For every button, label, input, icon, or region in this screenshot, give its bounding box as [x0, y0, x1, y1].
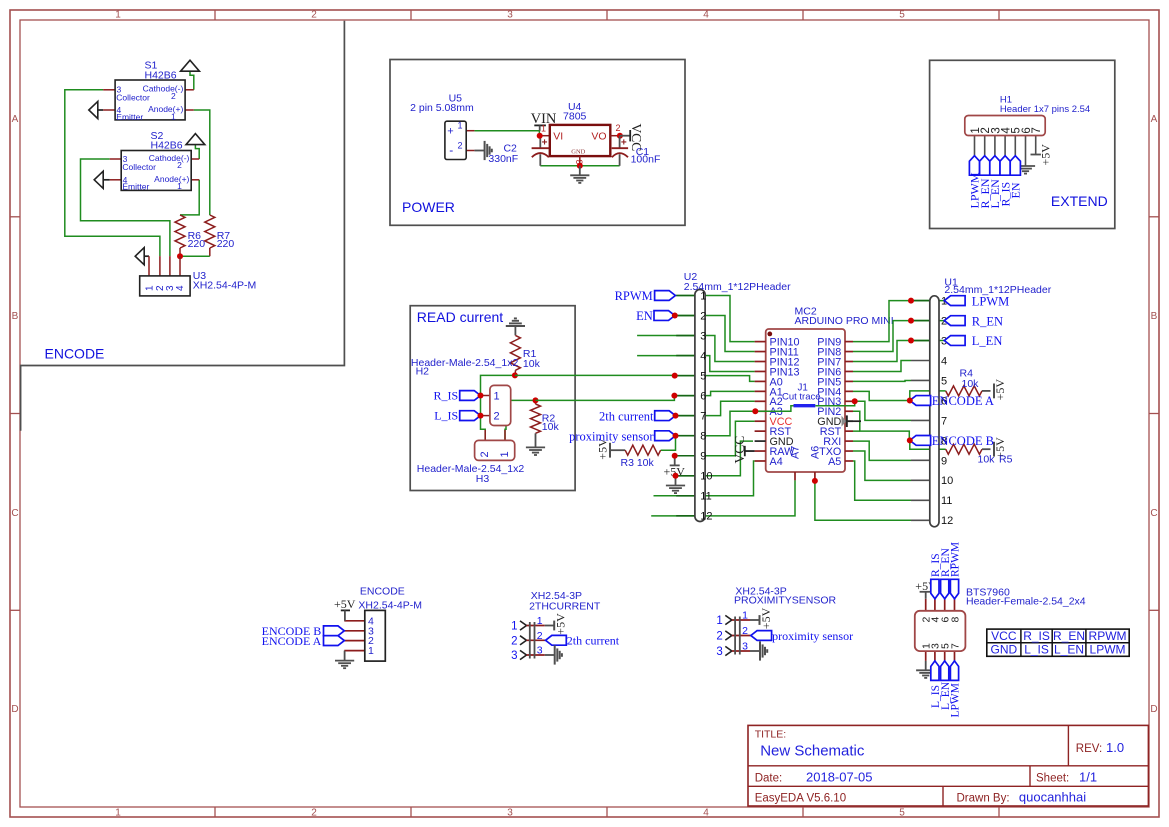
wire S1 cathode to VCC arrow	[190, 71, 194, 90]
VCC arrow above S2	[186, 134, 205, 145]
svg-text:8: 8	[949, 617, 961, 623]
svg-text:H3: H3	[476, 473, 490, 485]
svg-text:+5V: +5V	[1039, 144, 1053, 166]
pin S1.2	[185, 89, 194, 91]
ground above R1	[506, 325, 525, 327]
MC2 right pins	[845, 341, 853, 343]
svg-text:R_EN: R_EN	[972, 314, 1003, 328]
emitter arrow S2	[103, 179, 110, 181]
EXTEND section box	[930, 60, 1115, 228]
svg-text:B: B	[12, 311, 19, 322]
svg-text:RPWM: RPWM	[950, 542, 962, 577]
svg-text:B: B	[1151, 311, 1158, 322]
junction A3	[752, 408, 758, 414]
R3 resistor 10k	[610, 449, 625, 451]
svg-text:proximity sensor: proximity sensor	[772, 629, 853, 643]
svg-text:LPWM: LPWM	[1090, 643, 1126, 657]
svg-text:1: 1	[171, 111, 176, 121]
svg-text:ARDUINO PRO MINI: ARDUINO PRO MINI	[795, 315, 894, 327]
junction VIN node dot	[537, 133, 543, 139]
svg-text:6: 6	[700, 391, 706, 403]
svg-text:Drawn By:: Drawn By:	[957, 792, 1010, 804]
VCC net label at RAW	[745, 450, 755, 452]
svg-text:POWER: POWER	[402, 199, 455, 215]
+5V at ENCODE pin4	[341, 609, 350, 611]
svg-text:9: 9	[700, 451, 706, 463]
junction A6	[812, 478, 818, 484]
svg-text:1: 1	[742, 610, 748, 622]
junction R_IS	[478, 393, 484, 399]
H1 pin wires	[974, 136, 976, 156]
svg-text:L_EN: L_EN	[972, 334, 1003, 348]
svg-text:ENCODE B: ENCODE B	[932, 434, 994, 448]
+5V at H1.7	[1031, 154, 1041, 156]
svg-text:A: A	[1151, 114, 1158, 125]
net flag RPWM top	[950, 579, 958, 599]
svg-text:D: D	[1150, 704, 1157, 715]
svg-text:2 pin 5.08mm: 2 pin 5.08mm	[410, 102, 474, 114]
ENCODE section box	[21, 21, 345, 431]
svg-text:A4: A4	[770, 456, 783, 468]
wire S1 collector to U3 pin2	[65, 90, 160, 256]
svg-text:XH2.54-4P-M: XH2.54-4P-M	[193, 280, 257, 292]
svg-text:GND: GND	[571, 148, 585, 155]
svg-text:New Schematic: New Schematic	[760, 743, 865, 760]
svg-text:Sheet:: Sheet:	[1036, 772, 1069, 784]
svg-text:12: 12	[700, 511, 712, 523]
svg-text:+5V: +5V	[993, 379, 1007, 401]
READ current section box	[410, 306, 575, 491]
wire R2 top	[535, 400, 537, 404]
header H2	[490, 385, 511, 425]
svg-text:5: 5	[899, 808, 905, 819]
ground at U5.2	[474, 150, 484, 152]
header U2 2.54mm 1x12	[676, 295, 695, 297]
svg-text:C: C	[11, 508, 18, 519]
junction R1 node	[512, 372, 518, 378]
svg-text:EXTEND: EXTEND	[1051, 193, 1108, 209]
wire S2 anode to R6	[180, 180, 199, 215]
svg-text:2: 2	[458, 141, 463, 151]
svg-text:Anode(+): Anode(+)	[154, 174, 189, 184]
svg-text:2: 2	[494, 411, 500, 423]
wire U5.1 to VIN node	[474, 131, 539, 136]
net flag L_EN	[944, 336, 965, 346]
pin U3.3	[169, 256, 171, 276]
pin H2.1	[481, 395, 490, 397]
svg-text:7: 7	[1031, 127, 1043, 133]
svg-text:12: 12	[941, 515, 953, 527]
title block	[748, 725, 1148, 806]
svg-text:2: 2	[716, 631, 722, 643]
net flag ENCODE A bottom	[324, 636, 345, 646]
svg-text:ENCODE A: ENCODE A	[932, 394, 994, 408]
svg-text:7: 7	[941, 415, 947, 427]
+5V at BTS pin2	[920, 591, 933, 593]
svg-text:1: 1	[494, 390, 500, 402]
svg-text:2: 2	[177, 160, 182, 170]
junction R2 node	[533, 397, 539, 403]
wire R7 bottom to node	[209, 248, 211, 256]
svg-text:2THCURRENT: 2THCURRENT	[529, 600, 601, 612]
opto S2 H42B6	[121, 151, 191, 191]
pin S2.3	[110, 158, 122, 160]
svg-text:VCC: VCC	[991, 629, 1017, 643]
svg-text:7805: 7805	[563, 111, 587, 123]
wire R1 to junction	[514, 370, 516, 375]
svg-text:R5: R5	[999, 454, 1013, 466]
pin S2.2	[191, 158, 199, 160]
pin S2.4	[110, 179, 122, 181]
svg-text:L_IS: L_IS	[1024, 643, 1049, 657]
net flag R_EN top	[941, 579, 949, 599]
svg-text:+: +	[542, 138, 548, 149]
net flag ENCODE B bottom	[324, 626, 345, 636]
gnd arrow U3.1	[135, 248, 144, 265]
svg-text:220: 220	[188, 238, 206, 250]
svg-text:1: 1	[511, 621, 517, 633]
svg-text:11: 11	[700, 491, 711, 503]
svg-text:4: 4	[700, 350, 706, 362]
pin U4.VI	[540, 135, 550, 137]
svg-text:8: 8	[700, 431, 706, 443]
svg-text:7: 7	[949, 643, 961, 649]
svg-text:2: 2	[616, 123, 621, 133]
svg-text:10k: 10k	[978, 454, 996, 466]
svg-text:2th current: 2th current	[567, 634, 620, 648]
svg-text:3: 3	[716, 646, 722, 658]
svg-text:1: 1	[537, 615, 543, 627]
svg-text:10: 10	[700, 471, 712, 483]
net flag EN	[1010, 156, 1020, 176]
MC2 left pins	[755, 341, 766, 343]
svg-text:R_EN: R_EN	[1053, 629, 1085, 643]
net flag LPWM bottom	[950, 661, 958, 681]
+5V below U2 pin9	[674, 456, 676, 466]
svg-text:2: 2	[700, 310, 706, 322]
svg-text:VCC: VCC	[629, 124, 644, 152]
ground below U4	[579, 166, 581, 176]
svg-text:EasyEDA V5.6.10: EasyEDA V5.6.10	[755, 793, 846, 805]
svg-text:Header 1x7 pins 2.54: Header 1x7 pins 2.54	[1000, 104, 1090, 115]
svg-text:2.54mm_1*12PHeader: 2.54mm_1*12PHeader	[684, 281, 791, 293]
svg-text:2: 2	[311, 10, 317, 21]
net flag 2th current	[655, 411, 676, 421]
net flag L_EN bottom	[941, 661, 949, 681]
ground below R2	[535, 433, 537, 447]
svg-text:3: 3	[700, 330, 706, 342]
svg-text:1.0: 1.0	[1106, 740, 1124, 755]
svg-text:+: +	[447, 126, 453, 138]
+5V at R3	[609, 443, 611, 458]
net flag ENCODE B	[910, 435, 931, 445]
svg-text:11: 11	[941, 495, 952, 507]
svg-text:1: 1	[499, 451, 511, 457]
wire gnd bus C2-C1	[540, 165, 619, 167]
svg-text:TITLE:: TITLE:	[755, 729, 787, 741]
svg-text:ENCODE A: ENCODE A	[262, 634, 322, 648]
junction R6/R7/U3.4	[177, 253, 183, 259]
svg-text:H42B6: H42B6	[151, 140, 183, 152]
svg-text:4: 4	[941, 355, 947, 367]
svg-text:A6: A6	[810, 446, 822, 459]
capacitor C1	[619, 136, 621, 149]
svg-text:5: 5	[700, 371, 706, 383]
pin H3.2	[484, 430, 486, 441]
svg-text:D: D	[11, 704, 18, 715]
svg-text:RPWM: RPWM	[615, 289, 653, 303]
svg-text:L_EN: L_EN	[1054, 643, 1084, 657]
svg-text:10: 10	[941, 475, 953, 487]
svg-text:3: 3	[511, 650, 517, 662]
svg-text:READ current: READ current	[417, 309, 503, 325]
svg-text:Collector: Collector	[116, 93, 150, 103]
svg-text:GND: GND	[991, 643, 1018, 657]
svg-text:3: 3	[507, 808, 513, 819]
net flag EN	[654, 311, 675, 321]
pin H3.1	[504, 430, 506, 441]
header U1 2.54mm 1x12	[911, 300, 930, 302]
GND flag right of MC2	[842, 416, 847, 427]
svg-text:-: -	[449, 143, 453, 157]
wire junction to H2.1 (R_IS)	[481, 375, 515, 395]
net flag R_EN	[944, 316, 965, 326]
svg-text:2: 2	[537, 630, 543, 642]
cut trace wire J1	[755, 406, 793, 412]
svg-text:4: 4	[703, 10, 709, 21]
wire R_IS to L_IS	[480, 396, 482, 416]
wire L_IS to H3.2	[481, 416, 486, 441]
resistor R1	[510, 335, 520, 370]
connector BTS7960 Header-Female-2.54_2x4	[925, 599, 927, 611]
svg-text:ENCODE: ENCODE	[360, 585, 405, 597]
pin H2.2	[481, 415, 490, 417]
svg-text:Emitter: Emitter	[122, 182, 149, 192]
net flag ENCODE A	[910, 396, 931, 406]
svg-text:Collector: Collector	[122, 162, 156, 172]
svg-text:VCC: VCC	[732, 436, 747, 464]
svg-text:10k: 10k	[523, 358, 541, 370]
wires MC2 right to U1	[853, 301, 944, 342]
header H1	[965, 116, 1045, 136]
svg-text:H42B6: H42B6	[145, 69, 177, 81]
svg-text:10k: 10k	[962, 378, 980, 390]
pin U3.2	[159, 256, 161, 276]
pin U5.2	[466, 150, 474, 152]
MC2 bottom pins A7 A6	[794, 472, 796, 480]
svg-text:+: +	[621, 138, 627, 149]
R5 pullup ENCODE B	[910, 440, 946, 449]
svg-text:R_IS: R_IS	[1023, 629, 1050, 643]
svg-text:A7: A7	[790, 446, 802, 459]
ground at H1.6	[1016, 165, 1035, 167]
pin U4.GND	[579, 156, 581, 166]
svg-text:1: 1	[115, 808, 121, 819]
net flag R_IS	[460, 391, 481, 401]
svg-text:R3 10k: R3 10k	[621, 457, 655, 469]
svg-text:9: 9	[941, 455, 947, 467]
pin U4.VO	[610, 135, 620, 137]
pin U5.1	[466, 130, 474, 132]
svg-text:220: 220	[217, 238, 235, 250]
svg-text:3: 3	[742, 641, 748, 653]
pin U3.4	[179, 256, 181, 276]
svg-text:7: 7	[700, 411, 706, 423]
R4 pullup ENCODE A	[910, 391, 946, 401]
svg-text:2th current: 2th current	[599, 409, 654, 423]
svg-text:+5V: +5V	[334, 597, 356, 611]
svg-text:RPWM: RPWM	[1089, 629, 1127, 643]
net flag L_EN	[990, 156, 1000, 176]
svg-text:XH2.54-4P-M: XH2.54-4P-M	[358, 599, 422, 611]
svg-text:1: 1	[115, 10, 121, 21]
ENCODE 4P connector	[344, 620, 365, 622]
ground below U2 pin10	[675, 476, 677, 486]
net label VCC	[620, 135, 630, 137]
svg-text:Cut trace: Cut trace	[782, 392, 821, 403]
pin S2.1	[191, 179, 199, 181]
svg-text:R_IS: R_IS	[434, 389, 459, 403]
svg-text:H2: H2	[416, 366, 430, 378]
svg-text:4: 4	[703, 808, 709, 819]
svg-text:3: 3	[537, 645, 543, 657]
net flag R_EN	[980, 156, 990, 176]
svg-text:C: C	[1150, 508, 1157, 519]
svg-text:Emitter: Emitter	[116, 112, 143, 122]
net flag R_IS top	[931, 579, 939, 599]
svg-text:+5V: +5V	[759, 607, 773, 629]
U2 junction dots	[672, 373, 678, 379]
junction PIN3	[852, 398, 858, 404]
svg-text:VO: VO	[591, 130, 606, 142]
svg-text:1: 1	[177, 181, 182, 191]
svg-text:2018-07-05: 2018-07-05	[806, 769, 873, 784]
svg-text:2: 2	[511, 636, 517, 648]
wire R2 node to H3.1	[505, 400, 536, 440]
svg-text:1: 1	[144, 285, 155, 291]
svg-text:REV:: REV:	[1076, 743, 1102, 755]
svg-text:10k: 10k	[542, 421, 560, 433]
svg-text:Date:: Date:	[755, 772, 783, 784]
junction L_IS	[478, 413, 484, 419]
svg-text:1: 1	[541, 124, 546, 134]
svg-text:A: A	[12, 114, 19, 125]
svg-text:Anode(+): Anode(+)	[148, 104, 183, 114]
svg-text:2: 2	[479, 451, 491, 457]
svg-text:LPWM: LPWM	[972, 294, 1010, 308]
resistor R7	[205, 215, 215, 248]
opto S1 H42B6	[115, 80, 185, 120]
resistor R6	[175, 215, 185, 248]
svg-text:3: 3	[507, 10, 513, 21]
svg-text:1: 1	[458, 121, 463, 131]
ground at ENCODE pin1	[344, 651, 346, 661]
net flag proximity sensor	[655, 431, 676, 441]
svg-text:2: 2	[171, 91, 176, 101]
svg-text:2: 2	[742, 625, 748, 637]
pin S1.1	[185, 109, 194, 111]
net flag L_IS bottom	[931, 661, 939, 681]
junction VO	[617, 133, 623, 139]
emitter arrow S1	[97, 109, 103, 111]
svg-text:PROXIMITYSENSOR: PROXIMITYSENSOR	[734, 595, 837, 607]
wire S2 cathode to VCC arrow	[195, 145, 199, 159]
svg-text:LPWM: LPWM	[950, 683, 962, 718]
svg-text:EN: EN	[1009, 182, 1023, 198]
net flag R_IS	[1000, 156, 1010, 176]
capacitor C2	[539, 136, 541, 149]
pin S1.3	[103, 89, 115, 91]
svg-text:quocanhhai: quocanhhai	[1019, 790, 1086, 805]
svg-text:330nF: 330nF	[488, 153, 518, 165]
svg-text:A5: A5	[828, 456, 841, 468]
svg-text:2: 2	[311, 808, 317, 819]
POWER section box	[390, 60, 685, 226]
net flag LPWM	[944, 296, 965, 306]
wire S2 collector to U3 pin3	[81, 159, 170, 256]
net flag L_IS	[460, 411, 481, 421]
svg-text:L_IS: L_IS	[434, 409, 458, 423]
svg-text:Header-Female-2.54_2x4: Header-Female-2.54_2x4	[966, 596, 1086, 608]
pin U3.1	[145, 255, 149, 257]
svg-text:Header-Male-2.54_1x2: Header-Male-2.54_1x2	[417, 463, 525, 475]
pin S1.4	[103, 109, 115, 111]
svg-text:1/1: 1/1	[1079, 769, 1097, 784]
wire S1 anode to R7	[194, 110, 210, 215]
svg-text:+5V: +5V	[554, 613, 568, 635]
regulator U4 7805	[550, 125, 611, 156]
junction gnd	[577, 163, 583, 169]
svg-text:EN: EN	[636, 309, 653, 323]
VCC arrow above S1	[181, 60, 200, 71]
signal table	[987, 629, 1129, 656]
svg-text:5: 5	[899, 10, 905, 21]
net flag LPWM	[969, 156, 979, 176]
svg-text:1: 1	[716, 615, 722, 627]
wire R6 bottom to U3 pin4	[179, 248, 181, 256]
svg-text:100nF: 100nF	[631, 154, 661, 166]
wires U2 to MC2 left side	[675, 296, 754, 342]
ground at BTS pin1	[925, 661, 927, 670]
svg-text:1: 1	[368, 645, 374, 657]
net flag RPWM	[655, 291, 676, 301]
MC2 box ARDUINO PRO MINI	[766, 329, 845, 472]
svg-text:ENCODE: ENCODE	[45, 346, 105, 362]
svg-text:5: 5	[941, 375, 947, 387]
svg-text:4: 4	[175, 285, 186, 291]
resistor R2	[531, 404, 541, 433]
svg-text:proximity sensor: proximity sensor	[569, 429, 654, 443]
svg-text:VI: VI	[553, 130, 563, 142]
